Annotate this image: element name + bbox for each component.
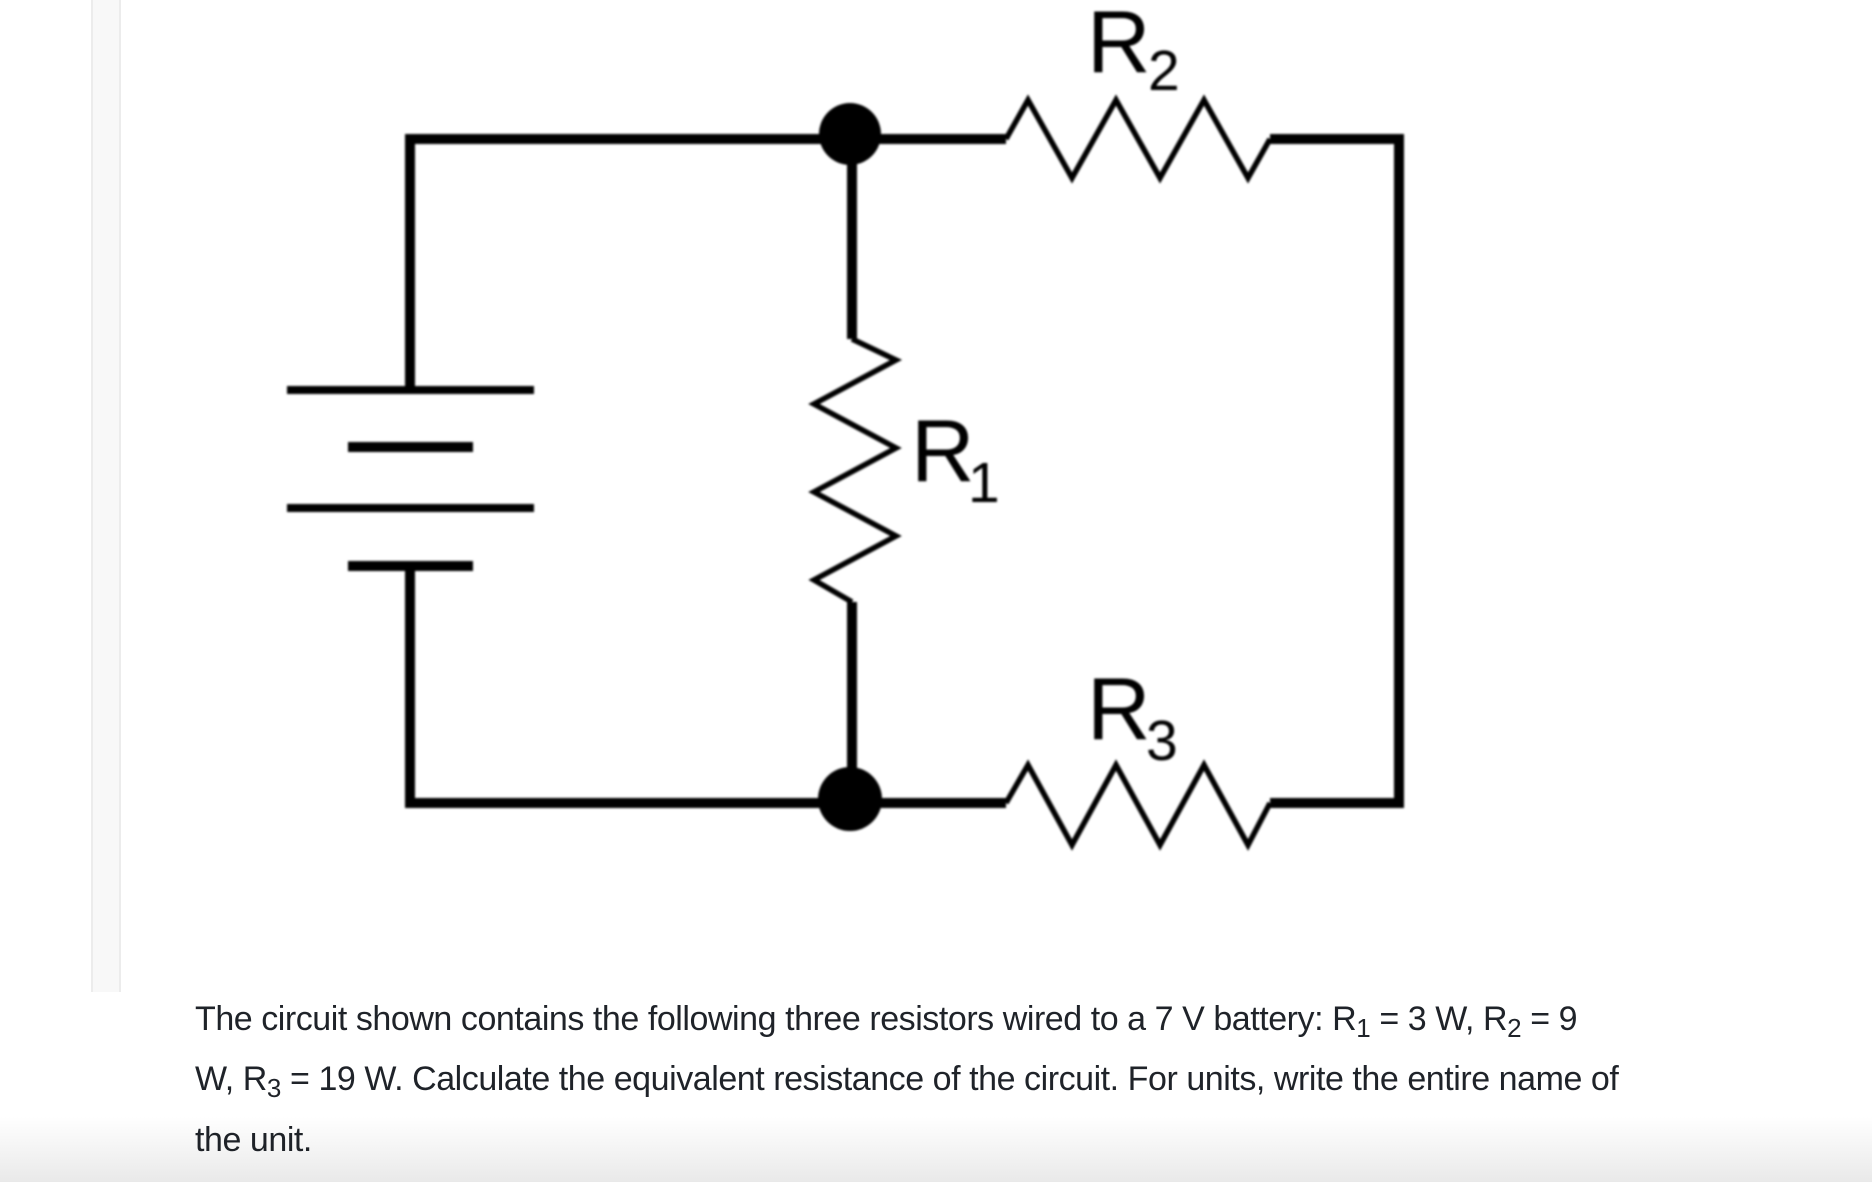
- battery B1 plate long lower: [287, 504, 534, 512]
- question text line 2: [195, 1059, 1618, 1108]
- wire top-left loop (battery top to top node rail): [410, 139, 1006, 386]
- battery B1 plate long top: [287, 386, 534, 394]
- node junction top: [819, 103, 881, 165]
- sidebar edge strip: [91, 0, 121, 992]
- bottom fade band: [0, 1116, 1872, 1182]
- node junction bottom: [818, 767, 882, 831]
- svg-text:1: 1: [968, 451, 1000, 515]
- label R3: [1087, 659, 1178, 773]
- resistor R1: [814, 339, 896, 602]
- resistor R2: [1006, 100, 1270, 178]
- wire middle branch upper: [847, 134, 857, 339]
- wire bottom-left loop (bottom node rail to battery bottom): [410, 566, 1006, 803]
- label R1: [911, 401, 1000, 515]
- svg-text:R: R: [1087, 659, 1151, 758]
- question text line 3: [195, 1120, 312, 1160]
- battery B1 plate short bottom: [348, 561, 473, 571]
- wire top-right corner and right rail: [1270, 139, 1399, 803]
- wire middle branch lower: [847, 602, 857, 803]
- svg-text:2: 2: [1148, 39, 1180, 103]
- battery B1 plate short upper: [348, 442, 473, 452]
- svg-text:R: R: [1087, 0, 1151, 91]
- svg-text:R: R: [911, 401, 975, 500]
- resistor R3: [1006, 765, 1270, 845]
- question text line 1: [195, 999, 1577, 1048]
- label R2: [1087, 0, 1180, 103]
- svg-text:3: 3: [1146, 709, 1178, 773]
